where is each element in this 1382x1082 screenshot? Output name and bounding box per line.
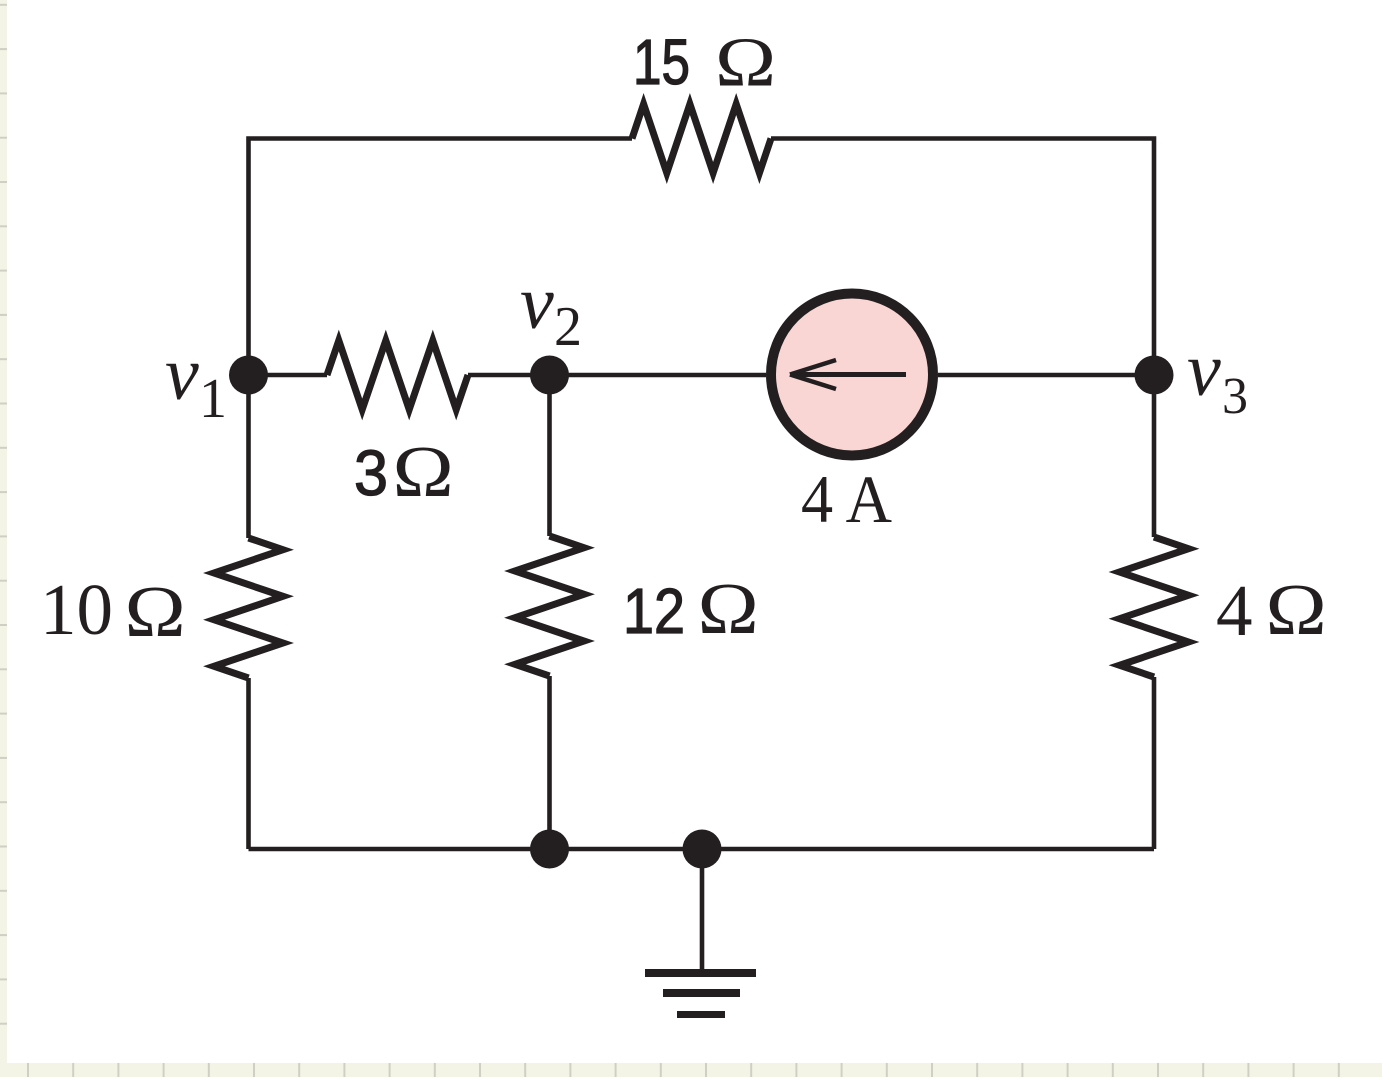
ground symbol bottom bar: [677, 1011, 725, 1018]
wire: node v3 down to 4-ohm resistor: [1152, 375, 1157, 537]
svg-text:v: v: [520, 261, 554, 345]
wire: 12-ohm resistor to bottom junction: [547, 676, 552, 849]
wire: node v2 down to 12-ohm resistor: [547, 375, 552, 536]
wire: node v1 to 3-ohm resistor: [249, 373, 328, 378]
svg-text:Ω: Ω: [715, 23, 776, 101]
svg-text:4 A: 4 A: [801, 461, 892, 537]
svg-text:10: 10: [40, 569, 113, 650]
resistor R=15 ohm (top): [632, 104, 771, 173]
svg-text:Ω: Ω: [125, 571, 186, 652]
svg-text:Ω: Ω: [698, 568, 759, 649]
ground symbol middle bar: [663, 989, 740, 997]
wire: node v2 to current source: [550, 373, 767, 378]
svg-text:12: 12: [623, 575, 685, 647]
wire: 4-ohm resistor to bottom-right corner: [1152, 677, 1157, 849]
svg-text:v: v: [165, 332, 199, 416]
wire: bottom rail: [249, 847, 1155, 852]
bottom junction dot of 12-ohm branch: [530, 830, 569, 869]
current source arrowhead lower barb: [790, 375, 836, 390]
graph-paper strip along left edge: [0, 0, 7, 1077]
current source arrowhead upper barb: [790, 360, 836, 375]
svg-text:Ω: Ω: [393, 431, 454, 512]
wire: ground stem: [700, 849, 705, 969]
wire: current source to node v3: [938, 373, 1154, 378]
wire: left rail, node v1 up to top-left corner and across to 15-ohm resistor: [249, 139, 633, 376]
node v2 junction dot: [530, 356, 569, 395]
resistor R=10 ohm (left branch): [214, 538, 283, 678]
svg-text:3: 3: [1222, 368, 1248, 425]
graph-paper strip along bottom edge: [0, 1063, 1382, 1077]
svg-text:Ω: Ω: [1266, 569, 1327, 650]
svg-text:15: 15: [633, 26, 690, 98]
svg-text:1: 1: [199, 368, 227, 430]
current source 4 A circle: [771, 294, 933, 456]
svg-text:v: v: [1187, 328, 1221, 412]
svg-text:4: 4: [1216, 570, 1253, 651]
node v1 junction dot: [229, 356, 268, 395]
ground symbol top bar: [645, 969, 756, 977]
svg-text:3: 3: [354, 437, 388, 509]
svg-text:2: 2: [554, 296, 582, 358]
wire: 3-ohm resistor to node v2: [468, 373, 550, 378]
wire: node v1 down to 10-ohm resistor: [246, 375, 251, 538]
wire: 15-ohm resistor across top-right corner down to node v3: [771, 139, 1154, 376]
resistor R=12 ohm (middle branch): [515, 536, 584, 676]
current source arrow shaft: [791, 372, 906, 377]
resistor R=4 ohm (right branch): [1120, 537, 1189, 677]
node v3 junction dot: [1135, 356, 1174, 395]
resistor R=3 ohm (between v1 and v2): [327, 341, 468, 410]
wire: 10-ohm resistor to bottom-left corner: [246, 678, 251, 849]
bottom junction dot at ground node: [683, 830, 722, 869]
